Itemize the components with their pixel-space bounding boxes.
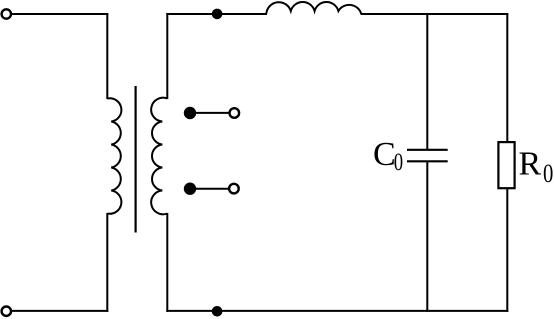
junction dot bottom — [212, 306, 223, 317]
tap upper: filled dot — [184, 107, 196, 119]
tap lower: filled dot — [184, 183, 196, 195]
tap lower open circle — [229, 184, 239, 194]
tap lower wire — [190, 188, 229, 190]
terminal bottom-left — [2, 307, 11, 316]
wire secondary vertical bottom — [166, 213, 168, 312]
wire primary left vertical top — [106, 13, 108, 99]
wire primary left vertical bottom — [106, 213, 108, 312]
terminal top-left — [2, 9, 11, 18]
inductor top — [266, 2, 361, 14]
wire top horizontal right of inductor — [361, 13, 509, 15]
wire capacitor branch top — [426, 13, 428, 150]
wire resistor branch bottom — [506, 188, 508, 312]
svg-text:R: R — [519, 146, 542, 183]
winding primary L1 — [107, 98, 121, 214]
wire resistor branch top — [506, 13, 508, 142]
wire secondary vertical top — [166, 13, 168, 99]
svg-text:0: 0 — [543, 160, 553, 189]
svg-text:0: 0 — [394, 148, 403, 176]
winding secondary L2 — [151, 98, 167, 215]
junction dot top — [212, 9, 223, 20]
capacitor C0 top plate — [407, 149, 448, 151]
wire top horizontal left of inductor — [166, 13, 267, 15]
tap upper wire — [190, 112, 229, 114]
wire top-left horizontal — [11, 13, 108, 15]
tap upper open circle — [230, 108, 240, 118]
svg-text:C: C — [373, 136, 396, 173]
wire bottom-left horizontal — [11, 310, 108, 312]
capacitor C0 bottom plate — [407, 160, 448, 162]
wire bottom horizontal — [166, 310, 508, 312]
transformer core — [135, 86, 137, 233]
wire capacitor branch bottom — [426, 161, 428, 312]
resistor R0 body — [498, 142, 514, 188]
